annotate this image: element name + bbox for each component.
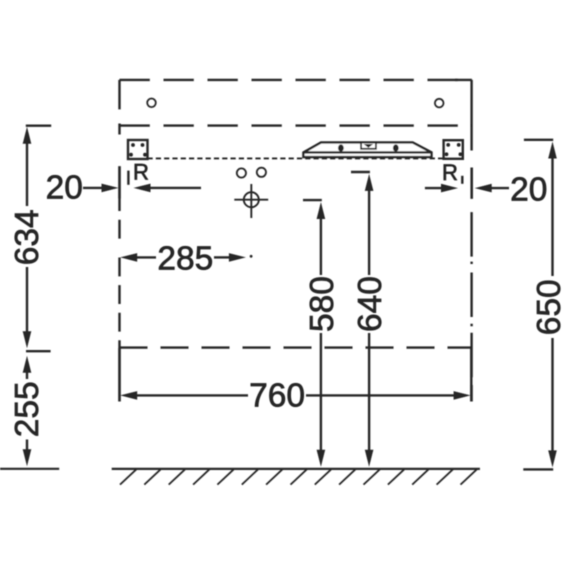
cabinet outline left edge (dashed) (118, 80, 120, 402)
dim 760 (120, 348, 472, 402)
cabinet outline right edge (dash-dot) (470, 80, 472, 402)
ground line (112, 468, 480, 470)
rail center clip (361, 143, 376, 149)
svg-text:640: 640 (352, 276, 389, 332)
rail bolt left (338, 144, 344, 151)
dim 20 right line (425, 168, 509, 199)
svg-text:285: 285 (157, 240, 213, 277)
svg-text:20: 20 (46, 169, 83, 206)
drain crosshair (234, 184, 268, 218)
svg-text:20: 20 (510, 171, 547, 208)
dim 285 line (120, 253, 252, 262)
svg-text:760: 760 (249, 377, 305, 414)
dim 650 (523, 140, 557, 470)
faucet hole right (257, 168, 266, 177)
countertop dotted line (148, 157, 444, 159)
cabinet outline top edge (dashed) (120, 79, 472, 81)
svg-text:580: 580 (304, 276, 341, 332)
svg-text:634: 634 (9, 209, 46, 265)
rail bolt right (393, 144, 399, 151)
dim 634 (23, 126, 52, 352)
svg-text:R: R (442, 160, 458, 185)
ground hatching (120, 469, 477, 484)
left bracket R (128, 140, 148, 159)
top hole right (435, 99, 444, 108)
inner rail dashed line (120, 124, 472, 126)
svg-text:R: R (133, 160, 149, 185)
drawer rail trapezoid (303, 142, 431, 157)
right bracket R (444, 140, 463, 159)
dim 580 (303, 200, 325, 467)
svg-text:650: 650 (531, 279, 568, 335)
dim 255 (0, 356, 59, 469)
top hole left (147, 99, 156, 108)
faucet hole left (237, 168, 246, 177)
dim 20 left line (83, 166, 201, 198)
cabinet outline bottom edge (dashed) (120, 346, 472, 348)
svg-text:255: 255 (9, 381, 46, 437)
dim 640 (351, 172, 373, 467)
